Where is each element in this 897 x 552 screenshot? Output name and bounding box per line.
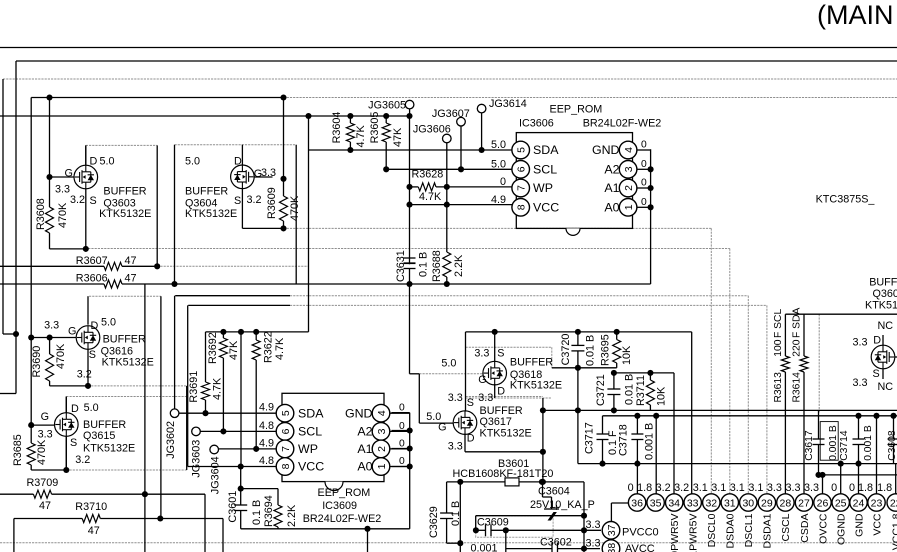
svg-text:1.8: 1.8 (858, 482, 873, 494)
svg-text:KTK5132E: KTK5132E (99, 208, 151, 220)
svg-text:10K: 10K (656, 386, 668, 406)
svg-text:OVCC: OVCC (817, 513, 829, 544)
svg-text:NC: NC (878, 381, 894, 393)
svg-text:C3720: C3720 (560, 334, 572, 366)
svg-text:D: D (467, 433, 475, 445)
svg-text:21PWR5V: 21PWR5V (688, 514, 700, 552)
svg-text:EEP_ROM: EEP_ROM (550, 104, 603, 116)
svg-text:5.0: 5.0 (101, 317, 116, 329)
svg-text:3.3: 3.3 (585, 519, 600, 531)
svg-text:0: 0 (399, 421, 405, 432)
svg-text:0.001 B: 0.001 B (828, 425, 839, 461)
svg-text:BUFFER: BUFFER (103, 333, 146, 345)
svg-text:KTK5132E: KTK5132E (865, 299, 897, 311)
svg-text:(MAIN: (MAIN (817, 0, 894, 30)
svg-text:IC3606: IC3606 (519, 117, 554, 129)
svg-text:D: D (90, 156, 98, 168)
svg-text:D: D (497, 386, 505, 398)
svg-text:DSDA0: DSDA0 (725, 513, 737, 548)
svg-text:BUFFER: BUFFER (869, 276, 897, 288)
svg-text:R3695: R3695 (600, 334, 612, 366)
svg-text:3.3: 3.3 (448, 392, 463, 404)
svg-text:SCL: SCL (298, 425, 322, 439)
svg-text:C3629: C3629 (428, 506, 440, 538)
svg-text:BUFFER: BUFFER (185, 186, 228, 198)
svg-text:A0: A0 (357, 460, 372, 474)
svg-text:D: D (234, 156, 242, 168)
svg-text:5.0: 5.0 (491, 158, 506, 170)
svg-text:4.7K: 4.7K (212, 377, 224, 400)
svg-text:23: 23 (871, 497, 883, 509)
svg-text:A1: A1 (357, 442, 372, 456)
svg-text:4.9: 4.9 (491, 194, 506, 206)
svg-text:G: G (41, 411, 49, 423)
svg-text:4: 4 (376, 410, 388, 416)
svg-text:AVCC: AVCC (625, 543, 655, 552)
svg-text:0: 0 (628, 482, 634, 494)
svg-text:0.01 B: 0.01 B (585, 335, 597, 366)
svg-text:0.01 B: 0.01 B (624, 374, 636, 405)
svg-text:2: 2 (623, 185, 635, 191)
svg-text:JG3607: JG3607 (432, 108, 470, 120)
svg-text:38: 38 (606, 543, 618, 552)
svg-text:Q3601: Q3601 (873, 288, 897, 300)
svg-text:BUFFER: BUFFER (480, 405, 523, 417)
svg-text:0: 0 (641, 178, 647, 189)
svg-text:7: 7 (515, 185, 527, 191)
svg-text:0: 0 (641, 159, 647, 170)
svg-text:F SDA: F SDA (792, 308, 803, 338)
svg-text:R3609: R3609 (266, 187, 278, 219)
svg-text:7: 7 (280, 446, 292, 452)
svg-text:R3692: R3692 (207, 332, 219, 364)
svg-text:1: 1 (623, 204, 635, 210)
svg-text:47: 47 (125, 273, 137, 285)
svg-text:R3685: R3685 (12, 434, 24, 466)
svg-text:CSDA: CSDA (799, 514, 811, 543)
svg-text:0.1 B: 0.1 B (450, 501, 462, 526)
svg-text:3.2: 3.2 (656, 482, 671, 494)
svg-text:5.0: 5.0 (100, 156, 115, 168)
svg-text:SCL: SCL (533, 163, 557, 177)
svg-text:C3714: C3714 (839, 430, 850, 461)
svg-text:Q3615: Q3615 (83, 430, 115, 442)
svg-text:PVCC0: PVCC0 (622, 527, 659, 539)
svg-text:IC3609: IC3609 (322, 500, 357, 512)
svg-text:47K: 47K (228, 340, 240, 360)
svg-text:24: 24 (853, 497, 865, 509)
svg-text:10K: 10K (621, 345, 633, 365)
svg-text:VCC: VCC (871, 513, 883, 536)
svg-text:470K: 470K (289, 195, 301, 221)
svg-text:0: 0 (399, 456, 405, 467)
svg-text:0.001: 0.001 (471, 543, 498, 552)
svg-text:32: 32 (705, 497, 717, 509)
svg-text:S: S (89, 349, 96, 361)
svg-text:0.001 B: 0.001 B (644, 423, 656, 460)
svg-text:S: S (70, 437, 77, 449)
svg-text:0: 0 (849, 482, 855, 494)
svg-text:GND: GND (592, 143, 620, 157)
svg-text:KTK5132E: KTK5132E (185, 208, 237, 220)
svg-text:0.001 B: 0.001 B (863, 425, 874, 461)
svg-text:WP: WP (298, 442, 318, 456)
svg-text:4.8: 4.8 (259, 420, 274, 432)
svg-text:3.3: 3.3 (474, 348, 489, 360)
svg-text:DSDA1: DSDA1 (762, 513, 774, 548)
svg-text:0: 0 (399, 403, 405, 414)
svg-text:VCC: VCC (298, 460, 324, 474)
svg-text:4.7K: 4.7K (419, 191, 442, 203)
svg-text:C3617: C3617 (804, 430, 815, 461)
svg-text:5: 5 (280, 410, 292, 416)
svg-text:35: 35 (650, 497, 662, 509)
svg-text:GND: GND (853, 513, 865, 537)
svg-text:R3710: R3710 (75, 501, 107, 513)
svg-text:20PWR5V: 20PWR5V (669, 514, 681, 552)
svg-text:3.2: 3.2 (70, 194, 85, 206)
svg-text:25V10_KA_P: 25V10_KA_P (530, 499, 595, 511)
svg-text:KTK5132E: KTK5132E (102, 356, 154, 368)
svg-text:3.3: 3.3 (478, 392, 493, 404)
svg-text:5.0: 5.0 (491, 139, 506, 151)
svg-text:0: 0 (399, 438, 405, 449)
svg-text:DSCL1: DSCL1 (743, 513, 755, 547)
svg-text:47: 47 (39, 500, 51, 512)
svg-text:R3607: R3607 (76, 255, 108, 267)
svg-text:220: 220 (792, 339, 803, 356)
svg-text:5.0: 5.0 (84, 402, 99, 414)
svg-text:31: 31 (724, 497, 736, 509)
svg-text:8: 8 (515, 204, 527, 210)
svg-text:R3711: R3711 (635, 375, 647, 406)
svg-text:0: 0 (500, 176, 506, 188)
svg-text:S: S (873, 368, 880, 380)
svg-text:4.7K: 4.7K (274, 337, 286, 360)
svg-text:VCC1.8: VCC1.8 (891, 513, 897, 550)
svg-text:3.3: 3.3 (448, 440, 463, 452)
svg-text:EEP_ROM: EEP_ROM (318, 487, 371, 499)
svg-text:4.7K: 4.7K (355, 124, 367, 147)
svg-text:3.1: 3.1 (711, 482, 726, 494)
svg-text:47: 47 (125, 255, 137, 267)
svg-text:R3691: R3691 (188, 371, 200, 403)
svg-text:34: 34 (668, 497, 680, 509)
svg-text:30: 30 (742, 497, 754, 509)
svg-text:3.2: 3.2 (77, 369, 92, 381)
svg-text:3.3: 3.3 (785, 482, 800, 494)
svg-text:47K: 47K (392, 127, 404, 147)
svg-text:3.2: 3.2 (75, 454, 90, 466)
svg-text:KTK5132E: KTK5132E (480, 428, 532, 440)
svg-text:G: G (65, 168, 73, 180)
svg-text:1: 1 (376, 463, 388, 469)
svg-text:R3604: R3604 (331, 112, 343, 144)
svg-text:R3688: R3688 (431, 250, 443, 282)
svg-text:D: D (91, 320, 99, 332)
svg-text:C3631: C3631 (395, 250, 407, 282)
svg-text:SDA: SDA (298, 406, 324, 420)
svg-text:0: 0 (831, 482, 837, 494)
svg-text:C3601: C3601 (227, 491, 239, 523)
svg-text:36: 36 (631, 497, 643, 509)
svg-text:3.3: 3.3 (261, 167, 276, 179)
svg-text:VCC: VCC (533, 201, 559, 215)
svg-text:SDA: SDA (533, 143, 559, 157)
svg-text:S: S (234, 195, 241, 207)
svg-text:A0: A0 (604, 201, 619, 215)
svg-text:KTK5132E: KTK5132E (83, 443, 135, 455)
svg-text:0.1 B: 0.1 B (418, 252, 430, 277)
svg-text:470K: 470K (57, 202, 69, 228)
svg-text:2.2K: 2.2K (286, 504, 298, 527)
svg-text:GND: GND (345, 406, 373, 420)
svg-text:3.3: 3.3 (804, 482, 819, 494)
svg-text:JG3603: JG3603 (191, 440, 203, 478)
svg-text:HCB1608KF-181T20: HCB1608KF-181T20 (453, 468, 554, 480)
svg-text:3.3: 3.3 (38, 429, 53, 441)
svg-text:A1: A1 (604, 181, 619, 195)
svg-text:3.1: 3.1 (730, 482, 745, 494)
svg-text:JG3604: JG3604 (210, 456, 222, 494)
svg-text:0.1 B: 0.1 B (251, 500, 263, 525)
svg-text:100: 100 (773, 339, 784, 356)
svg-text:A2: A2 (357, 425, 372, 439)
svg-text:3.3: 3.3 (44, 320, 59, 332)
svg-text:BUFFER: BUFFER (510, 357, 553, 369)
svg-text:S: S (467, 397, 474, 409)
svg-text:3.2: 3.2 (674, 482, 689, 494)
svg-text:NC: NC (878, 320, 894, 332)
svg-text:28: 28 (780, 497, 792, 509)
svg-text:25: 25 (835, 497, 847, 509)
svg-text:4.9: 4.9 (259, 402, 274, 414)
svg-text:JG3614: JG3614 (489, 98, 527, 110)
svg-text:R3694: R3694 (263, 495, 275, 527)
svg-text:3.3: 3.3 (55, 184, 70, 196)
svg-text:C3717: C3717 (584, 422, 596, 454)
svg-text:C3609: C3609 (477, 517, 509, 529)
svg-text:470K: 470K (36, 439, 48, 465)
svg-text:BUFFER: BUFFER (103, 186, 146, 198)
svg-text:R3622: R3622 (263, 331, 275, 363)
svg-text:S: S (90, 195, 97, 207)
svg-text:0: 0 (641, 140, 647, 151)
svg-text:R3690: R3690 (31, 346, 43, 378)
svg-text:R3709: R3709 (27, 477, 59, 489)
svg-text:F SCL: F SCL (773, 309, 784, 338)
svg-text:2.2K: 2.2K (453, 254, 465, 277)
svg-text:5: 5 (515, 147, 527, 153)
svg-text:R3608: R3608 (35, 198, 47, 230)
svg-text:5.0: 5.0 (441, 358, 456, 370)
svg-text:26: 26 (817, 497, 829, 509)
svg-text:3.2: 3.2 (247, 194, 262, 206)
svg-text:47: 47 (88, 525, 100, 537)
svg-text:A2: A2 (604, 163, 619, 177)
svg-text:4.8: 4.8 (259, 455, 274, 467)
svg-text:3.3: 3.3 (767, 482, 782, 494)
svg-text:BR24L02F-WE2: BR24L02F-WE2 (583, 117, 662, 129)
svg-text:DSCL0: DSCL0 (706, 513, 718, 547)
svg-text:CSCL: CSCL (780, 513, 792, 541)
svg-text:1.8: 1.8 (877, 482, 892, 494)
svg-text:3: 3 (623, 166, 635, 172)
svg-text:C3718: C3718 (618, 424, 630, 456)
svg-text:G: G (438, 421, 446, 433)
svg-text:G: G (68, 326, 76, 338)
svg-text:29: 29 (761, 497, 773, 509)
svg-text:D: D (873, 335, 881, 347)
svg-text:R3614: R3614 (792, 372, 803, 403)
svg-text:2: 2 (376, 446, 388, 452)
svg-text:R3628: R3628 (412, 169, 444, 181)
svg-text:470K: 470K (55, 343, 67, 369)
svg-text:33: 33 (687, 497, 699, 509)
svg-text:3.1: 3.1 (748, 482, 763, 494)
svg-text:S: S (497, 348, 504, 360)
svg-text:KTC3875S_: KTC3875S_ (816, 194, 876, 206)
svg-text:WP: WP (533, 181, 553, 195)
svg-text:3.3: 3.3 (853, 337, 868, 349)
svg-text:6: 6 (280, 428, 292, 434)
svg-text:5.0: 5.0 (185, 156, 200, 168)
svg-text:R3606: R3606 (76, 273, 108, 285)
svg-text:22: 22 (890, 497, 897, 509)
svg-text:R3613: R3613 (773, 372, 784, 403)
svg-text:3.3: 3.3 (853, 377, 868, 389)
svg-text:1.8: 1.8 (637, 482, 652, 494)
svg-text:37: 37 (606, 524, 618, 536)
svg-text:C3602: C3602 (540, 537, 572, 549)
svg-text:4: 4 (623, 147, 635, 153)
svg-text:D: D (71, 403, 79, 415)
svg-text:4.9: 4.9 (259, 437, 274, 449)
svg-text:R3605: R3605 (369, 112, 381, 144)
svg-text:8: 8 (280, 463, 292, 469)
svg-text:27: 27 (798, 497, 810, 509)
svg-text:G: G (478, 374, 486, 386)
svg-text:OGND: OGND (836, 513, 848, 545)
svg-text:BR24L02F-WE2: BR24L02F-WE2 (303, 513, 382, 525)
svg-text:3: 3 (376, 428, 388, 434)
svg-text:C3608: C3608 (887, 430, 897, 461)
svg-text:Q3617: Q3617 (480, 416, 512, 428)
svg-text:C3604: C3604 (538, 485, 570, 497)
svg-text:3.3: 3.3 (585, 538, 600, 550)
svg-text:C3721: C3721 (595, 374, 607, 406)
svg-text:0: 0 (641, 197, 647, 208)
svg-text:JG3606: JG3606 (413, 123, 451, 135)
svg-text:6: 6 (515, 166, 527, 172)
svg-text:JG3602: JG3602 (165, 421, 177, 459)
svg-text:3.1: 3.1 (693, 482, 708, 494)
svg-text:KTK5132E: KTK5132E (510, 379, 562, 391)
svg-text:JG3605: JG3605 (368, 100, 406, 112)
